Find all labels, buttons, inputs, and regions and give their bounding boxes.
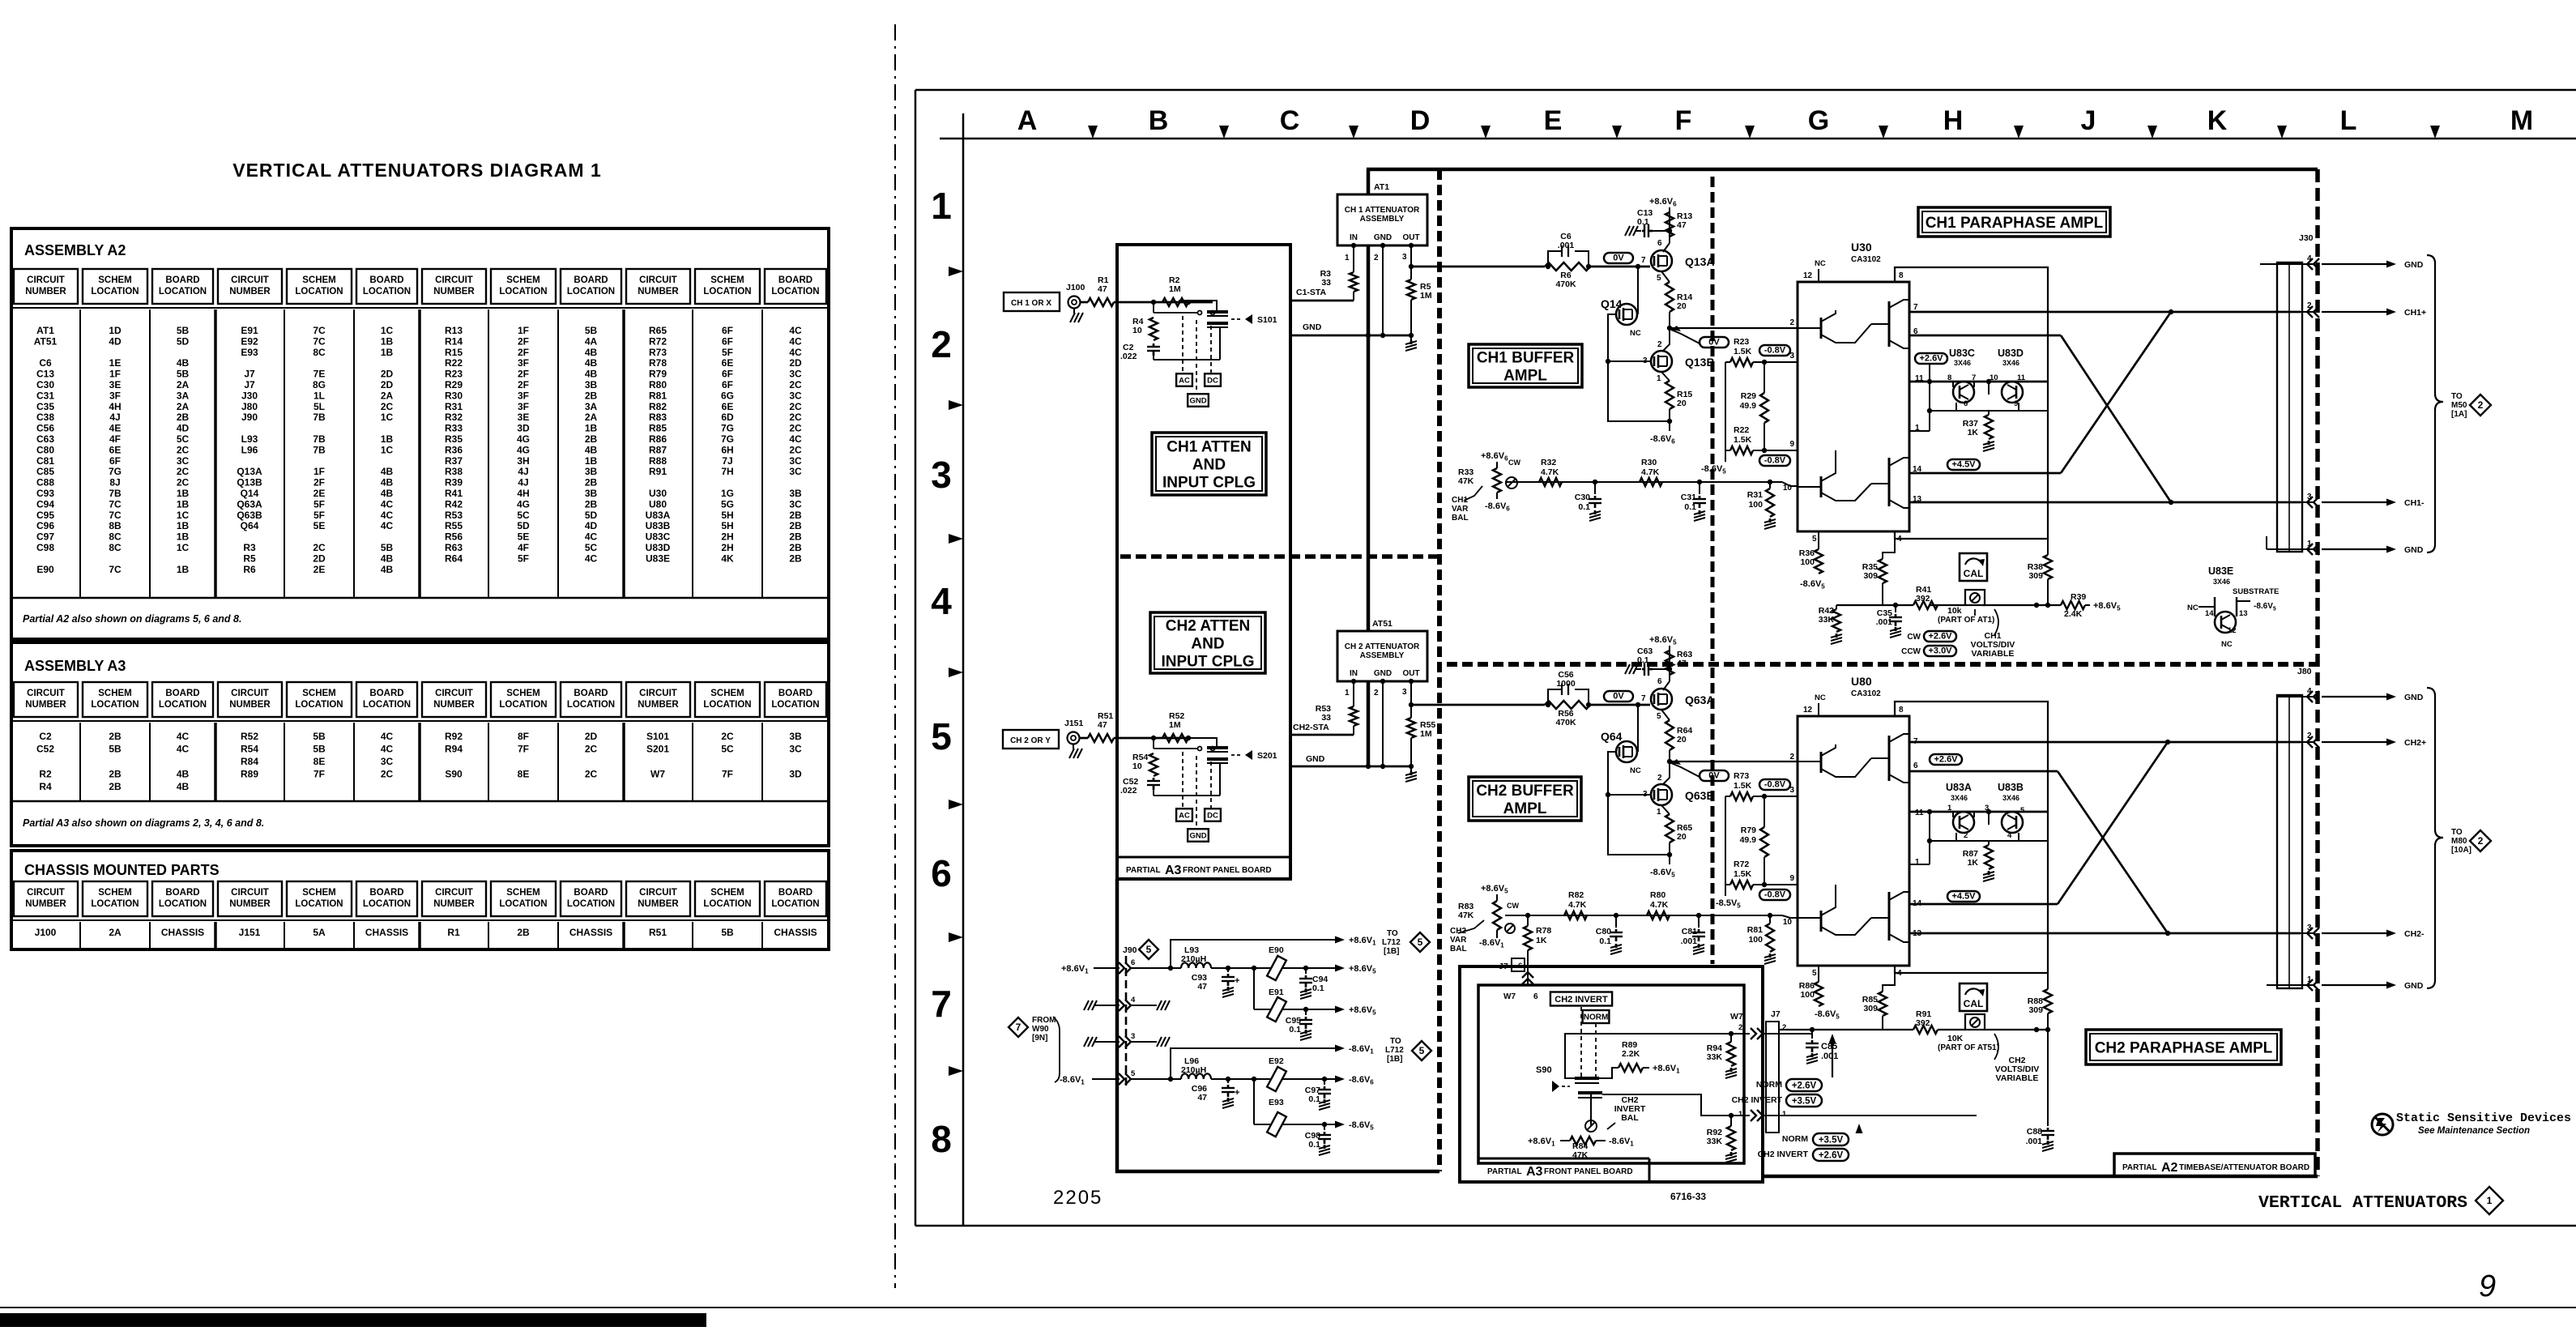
svg-text:GND: GND (1189, 396, 1206, 405)
ground C98 (1324, 1145, 1326, 1149)
ground R37 (1988, 441, 1990, 445)
svg-text:2B: 2B (585, 498, 598, 510)
svg-text:[10A]: [10A] (2451, 846, 2472, 855)
svg-text:4J: 4J (109, 412, 120, 423)
svg-text:2C: 2C (177, 444, 190, 455)
svg-text:8B: 8B (109, 520, 122, 531)
S90 wiring to W7 pin2 (1565, 1034, 1750, 1078)
svg-text:C30: C30 (36, 379, 54, 390)
svg-text:R85: R85 (649, 423, 667, 434)
svg-text:2C: 2C (789, 401, 802, 412)
resistor R5 (1409, 264, 1414, 269)
svg-text:4B: 4B (381, 564, 394, 575)
arrow up to wire (1832, 1040, 1833, 1077)
svg-text:2H: 2H (721, 531, 733, 543)
svg-text:R56: R56 (445, 531, 463, 543)
svg-text:(PART OF AT51): (PART OF AT51) (1938, 1043, 1999, 1052)
svg-text:12: 12 (1803, 271, 1813, 280)
U30 pin6 wire with crossover (1909, 335, 2061, 337)
svg-text:Partial A2 also shown on diagr: Partial A2 also shown on diagrams 5, 6 a… (23, 613, 241, 625)
GND arrow bottom (2267, 548, 2277, 550)
svg-text:+2.6V: +2.6V (1919, 354, 1943, 364)
svg-text:LOCATION: LOCATION (771, 287, 819, 296)
svg-text:7C: 7C (109, 498, 122, 510)
CH2 BUFFER AMPL label (1469, 777, 1581, 821)
+4.5V label (1947, 459, 1980, 470)
svg-text:3F: 3F (518, 401, 529, 412)
svg-text:3F: 3F (518, 390, 529, 401)
U30 pin14 wire with crossover (1909, 472, 2061, 475)
wire CH1 input (1142, 301, 1191, 304)
switch S101 (1186, 300, 1191, 305)
J30 brace TO M50 (2427, 255, 2443, 552)
svg-text:LOCATION: LOCATION (363, 899, 411, 909)
svg-text:4C: 4C (381, 731, 394, 742)
svg-text:8G: 8G (313, 379, 326, 390)
svg-text:4: 4 (931, 580, 952, 622)
svg-text:2B: 2B (517, 927, 530, 938)
svg-text:5F: 5F (313, 510, 325, 521)
svg-text:6: 6 (1533, 992, 1538, 1001)
svg-text:S101: S101 (1257, 315, 1277, 325)
svg-text:4B: 4B (381, 488, 394, 499)
U30 pin7 output wire (1909, 311, 2301, 314)
svg-text:3: 3 (1131, 1032, 1135, 1041)
A2 board outline top edge (1367, 168, 2318, 172)
svg-text:309: 309 (2028, 1005, 2043, 1015)
svg-text:2D: 2D (381, 369, 394, 380)
svg-text:3C: 3C (789, 744, 802, 755)
svg-text:7E: 7E (313, 369, 326, 380)
svg-text:1C: 1C (381, 325, 394, 336)
J80 brace TO M80 (2427, 688, 2443, 988)
svg-text:CH2: CH2 (1450, 927, 1466, 936)
svg-text:BAL: BAL (1450, 945, 1467, 953)
svg-text:IN: IN (1350, 669, 1358, 678)
svg-text:1C: 1C (177, 542, 190, 553)
svg-text:2C: 2C (177, 466, 190, 477)
wire Q63 output to U80 pin2 (1670, 761, 1798, 762)
svg-text:NUMBER: NUMBER (229, 287, 271, 296)
svg-text:3B: 3B (585, 466, 598, 477)
svg-text:1: 1 (2487, 1195, 2493, 1206)
svg-text:2B: 2B (585, 433, 598, 445)
svg-text:R79: R79 (1741, 825, 1756, 835)
svg-text:5: 5 (1419, 1045, 1425, 1056)
bottom left black bar (0, 1313, 706, 1327)
svg-text:Q64: Q64 (241, 520, 259, 531)
svg-text:BOARD: BOARD (369, 689, 403, 698)
svg-text:R54: R54 (241, 744, 258, 755)
+2.6V label U80 (1930, 754, 1962, 765)
svg-text:3C: 3C (789, 498, 802, 510)
svg-text:5: 5 (1812, 535, 1817, 544)
svg-text:2B: 2B (585, 390, 598, 401)
svg-text:47K: 47K (1458, 911, 1474, 920)
svg-text:R84: R84 (241, 756, 258, 767)
0V test label CH2 (1604, 691, 1633, 702)
svg-text:SCHEM: SCHEM (98, 275, 132, 285)
svg-text:1.5K: 1.5K (1734, 869, 1752, 879)
svg-text:2A: 2A (381, 390, 394, 401)
svg-text:GND: GND (2404, 260, 2424, 270)
svg-text:R78: R78 (649, 357, 667, 369)
U83AB emitter bus (1929, 812, 1930, 864)
CH1+ arrow (2322, 311, 2390, 313)
svg-text:6F: 6F (722, 335, 733, 347)
svg-text:+8.6V5: +8.6V5 (1349, 1005, 1376, 1017)
svg-text:47: 47 (1098, 720, 1107, 730)
svg-text:10K: 10K (1947, 1034, 1964, 1043)
svg-text:14: 14 (2205, 609, 2214, 618)
svg-text:4B: 4B (177, 781, 190, 792)
svg-text:NUMBER: NUMBER (433, 287, 475, 296)
svg-text:BOARD: BOARD (778, 689, 812, 698)
U80 lower pair transistors (1888, 892, 1891, 941)
svg-text:6H: 6H (721, 444, 733, 455)
svg-text:CH1-: CH1- (2404, 498, 2425, 508)
Q63A gate node wire (1636, 702, 1640, 707)
svg-text:SCHEM: SCHEM (710, 888, 744, 898)
svg-text:3A: 3A (585, 401, 598, 412)
svg-text:SCHEM: SCHEM (710, 275, 744, 285)
svg-text:GND: GND (1189, 831, 1206, 840)
svg-text:FRONT PANEL BOARD: FRONT PANEL BOARD (1544, 1167, 1633, 1176)
svg-text:.001: .001 (2026, 1137, 2043, 1146)
svg-text:ASSEMBLY: ASSEMBLY (1360, 215, 1405, 224)
svg-text:AC: AC (1179, 811, 1190, 820)
svg-text:CH 1 ATTENUATOR: CH 1 ATTENUATOR (1345, 206, 1420, 215)
svg-text:-8.6V1: -8.6V1 (1349, 1044, 1374, 1056)
svg-text:U83A: U83A (646, 510, 671, 521)
ground AT1 (1410, 335, 1412, 340)
svg-text:R36: R36 (445, 444, 463, 455)
svg-text:3: 3 (931, 454, 952, 496)
svg-text:U83C: U83C (1949, 348, 1975, 359)
svg-text:1: 1 (1345, 254, 1350, 262)
svg-text:LOCATION: LOCATION (159, 899, 207, 909)
svg-text:SCHEM: SCHEM (506, 689, 540, 698)
svg-text:NC: NC (2187, 604, 2199, 612)
svg-text:CH2+: CH2+ (2404, 738, 2426, 748)
svg-text:C81: C81 (36, 455, 54, 467)
svg-text:BAL: BAL (1621, 1113, 1639, 1123)
svg-text:0.1: 0.1 (1637, 217, 1649, 227)
svg-text:AMPL: AMPL (1503, 800, 1547, 817)
resistor R55 (1409, 702, 1414, 707)
svg-text:2D: 2D (381, 379, 394, 390)
ground C94 (1305, 988, 1307, 992)
svg-text:20: 20 (1677, 735, 1687, 744)
svg-text:R29: R29 (445, 379, 463, 390)
svg-text:4C: 4C (789, 347, 802, 358)
svg-text:7F: 7F (518, 744, 529, 755)
wire CH1 signal to buffer (1411, 266, 1545, 268)
svg-text:4C: 4C (381, 744, 394, 755)
svg-text:CIRCUIT: CIRCUIT (27, 689, 65, 698)
svg-text:LOCATION: LOCATION (771, 700, 819, 710)
svg-text:2C: 2C (177, 477, 190, 488)
wire CH1 bias rail (1505, 481, 1523, 483)
svg-text:8C: 8C (109, 531, 122, 543)
svg-text:1M: 1M (1169, 720, 1181, 730)
U30 pin13 output wire (1909, 501, 2301, 504)
svg-text:U80: U80 (649, 498, 667, 510)
A2 board dashed split line horizontal (1447, 662, 2318, 667)
svg-text:DC: DC (1207, 811, 1218, 820)
svg-text:5C: 5C (517, 510, 530, 521)
squiggle grounds pin3 (1084, 1037, 1089, 1047)
svg-text:3C: 3C (789, 466, 802, 477)
svg-text:5H: 5H (721, 510, 733, 521)
svg-text:6: 6 (1964, 399, 1968, 408)
svg-text:7B: 7B (109, 488, 122, 499)
wire CH2 input (1142, 737, 1191, 740)
svg-text:5C: 5C (585, 542, 598, 553)
svg-text:R42: R42 (445, 498, 463, 510)
CH2 INVERT switch label (1550, 992, 1612, 1006)
svg-text:TO: TO (1387, 929, 1398, 938)
svg-text:2: 2 (931, 323, 952, 365)
svg-text:1F: 1F (518, 325, 529, 336)
svg-text:2C: 2C (585, 744, 598, 755)
svg-text:+8.6V1: +8.6V1 (1528, 1137, 1555, 1148)
svg-text:4B: 4B (585, 357, 598, 369)
svg-text:Q64: Q64 (1601, 730, 1623, 743)
svg-text:6: 6 (1913, 761, 1918, 770)
svg-text:12: 12 (1803, 706, 1813, 715)
svg-text:47: 47 (1677, 659, 1687, 668)
svg-text:6E: 6E (109, 444, 122, 455)
svg-text:5G: 5G (721, 498, 734, 510)
svg-text:3C: 3C (789, 455, 802, 467)
svg-text:LOCATION: LOCATION (363, 700, 411, 710)
svg-text:3F: 3F (109, 390, 121, 401)
ground C30 (1594, 510, 1597, 514)
svg-text:Q13A: Q13A (237, 466, 262, 477)
svg-text:M80: M80 (2451, 837, 2467, 846)
Q64 gate wire (1608, 752, 1670, 855)
svg-text:C94: C94 (36, 498, 54, 510)
svg-text:BOARD: BOARD (574, 689, 608, 698)
svg-text:5B: 5B (177, 325, 190, 336)
+4.5V label U80 (1947, 891, 1980, 902)
capacitor C31 (1697, 480, 1702, 484)
svg-text:R22: R22 (1734, 425, 1749, 435)
chassis gnd C63 (1635, 668, 1641, 670)
CH2 PARAPHASE AMPL label (2086, 1030, 2281, 1064)
svg-text:SCHEM: SCHEM (710, 689, 744, 698)
svg-text:R73: R73 (1734, 771, 1749, 781)
svg-text:R72: R72 (649, 335, 667, 347)
svg-text:1B: 1B (585, 423, 598, 434)
svg-text:C52: C52 (36, 744, 54, 755)
wire W7 pin2 to paraphase (1779, 1033, 1812, 1035)
svg-text:1B: 1B (177, 488, 190, 499)
svg-text:A: A (1017, 105, 1038, 136)
svg-text:3B: 3B (789, 731, 802, 742)
svg-text:NUMBER: NUMBER (638, 287, 679, 296)
svg-text:100: 100 (1800, 557, 1815, 567)
svg-text:1K: 1K (1968, 858, 1979, 868)
svg-text:309: 309 (1863, 571, 1878, 581)
svg-text:0V: 0V (1613, 692, 1624, 702)
svg-text:4.7K: 4.7K (1641, 467, 1660, 477)
svg-text:CH2-: CH2- (2404, 929, 2425, 939)
svg-text:2C: 2C (789, 412, 802, 423)
svg-text:7: 7 (1641, 694, 1646, 703)
svg-text:4: 4 (1131, 996, 1136, 1005)
ground C96 (1227, 1098, 1230, 1102)
svg-text:6716-33: 6716-33 (1670, 1191, 1706, 1202)
svg-text:8C: 8C (313, 347, 326, 358)
U30 lower pair transistors (1888, 458, 1891, 506)
svg-text:6: 6 (931, 852, 952, 894)
svg-text:S201: S201 (1257, 751, 1277, 761)
svg-text:G: G (1808, 105, 1829, 136)
svg-text:NC: NC (1815, 693, 1826, 702)
svg-text:2D: 2D (789, 357, 802, 369)
svg-text:4: 4 (2007, 831, 2012, 840)
svg-text:VARIABLE: VARIABLE (1972, 649, 2015, 659)
svg-text:CHASSIS: CHASSIS (365, 927, 408, 938)
svg-text:4C: 4C (585, 552, 598, 564)
arrow up to NORM wire (1858, 1130, 1860, 1131)
svg-text:E92: E92 (1269, 1056, 1284, 1066)
svg-text:+2.6V: +2.6V (1819, 1151, 1844, 1161)
svg-text:W7: W7 (1503, 992, 1516, 1001)
svg-text:10: 10 (1783, 918, 1793, 927)
svg-text:J151: J151 (1064, 719, 1084, 728)
svg-text:C30: C30 (1575, 493, 1590, 502)
svg-text:C98: C98 (36, 542, 54, 553)
U80 upper pair transistors (1888, 736, 1891, 781)
svg-text:R64: R64 (445, 552, 463, 564)
bottom page line (0, 1307, 2576, 1308)
wire -8.6V rail (1131, 1078, 1181, 1080)
svg-text:1B: 1B (177, 564, 190, 575)
svg-text:5E: 5E (313, 520, 326, 531)
svg-text:FROM: FROM (1032, 1016, 1056, 1025)
svg-text:R81: R81 (649, 390, 667, 401)
svg-text:47K: 47K (1572, 1150, 1589, 1160)
svg-text:C38: C38 (36, 412, 54, 423)
svg-text:NUMBER: NUMBER (229, 899, 271, 909)
CH2 buffer/paraphase dashed separator (1711, 668, 1715, 964)
svg-text:SCHEM: SCHEM (506, 888, 540, 898)
svg-text:U83A: U83A (1946, 782, 1972, 793)
svg-text:4B: 4B (585, 347, 598, 358)
svg-text:NUMBER: NUMBER (25, 899, 66, 909)
svg-text:L712: L712 (1385, 1046, 1404, 1055)
svg-text:CIRCUIT: CIRCUIT (27, 888, 65, 898)
svg-text:W7: W7 (650, 769, 665, 780)
svg-text:2: 2 (1789, 318, 1794, 327)
svg-text:5F: 5F (518, 552, 529, 564)
A2 board outline left edge / AT1 gnd bus (1367, 169, 1371, 194)
svg-text:CH2-STA: CH2-STA (1293, 723, 1329, 732)
svg-text:5D: 5D (177, 335, 190, 347)
svg-text:SCHEM: SCHEM (302, 689, 336, 698)
svg-text:CCW: CCW (1901, 647, 1921, 656)
svg-text:W7: W7 (1730, 1012, 1743, 1022)
svg-text:AT1: AT1 (1374, 182, 1389, 192)
svg-text:GND: GND (1374, 669, 1392, 678)
svg-text:2C: 2C (381, 401, 394, 412)
svg-text:PARTIAL: PARTIAL (1126, 866, 1161, 875)
svg-text:2F: 2F (518, 369, 529, 380)
svg-text:1M: 1M (1420, 729, 1432, 739)
capacitor C80 (1614, 913, 1619, 918)
svg-text:5B: 5B (585, 325, 598, 336)
svg-text:3X46: 3X46 (1954, 359, 1971, 367)
svg-text:J80: J80 (241, 401, 258, 412)
svg-text:4J: 4J (518, 466, 528, 477)
svg-text:R29: R29 (1741, 391, 1756, 401)
svg-text:-8.6V1: -8.6V1 (1479, 938, 1504, 949)
svg-text:LOCATION: LOCATION (295, 700, 343, 710)
svg-text:-8.6V5: -8.6V5 (1701, 464, 1726, 476)
svg-text:A3: A3 (1165, 864, 1182, 877)
svg-text:LOCATION: LOCATION (91, 899, 139, 909)
svg-text:L93: L93 (241, 433, 258, 445)
svg-text:R30: R30 (445, 390, 463, 401)
svg-text:R73: R73 (649, 347, 667, 358)
svg-text:J90: J90 (241, 412, 258, 423)
svg-text:5: 5 (1657, 274, 1661, 283)
svg-text:4B: 4B (177, 769, 190, 780)
svg-text:5C: 5C (177, 433, 190, 445)
svg-text:2A: 2A (177, 401, 190, 412)
svg-text:R5: R5 (243, 552, 256, 564)
svg-text:20: 20 (1677, 399, 1687, 408)
svg-text:C: C (1280, 105, 1300, 136)
svg-text:R6: R6 (243, 564, 256, 575)
svg-text:BOARD: BOARD (778, 275, 812, 285)
GND arrow J80 top (2322, 696, 2390, 697)
ground C93 (1227, 987, 1230, 991)
svg-text:INPUT CPLG: INPUT CPLG (1161, 653, 1254, 670)
svg-text:R37: R37 (445, 455, 463, 467)
svg-text:R87: R87 (649, 444, 667, 455)
svg-text:2F: 2F (518, 347, 529, 358)
svg-text:5E: 5E (518, 531, 530, 543)
svg-text:11: 11 (1915, 808, 1924, 817)
svg-text:LOCATION: LOCATION (159, 700, 207, 710)
svg-text:7G: 7G (109, 466, 122, 477)
svg-text:5B: 5B (313, 731, 326, 742)
U83 emitter bus (1929, 382, 1930, 431)
svg-text:C85: C85 (36, 466, 54, 477)
svg-text:CH1 PARAPHASE AMPL: CH1 PARAPHASE AMPL (1926, 215, 2104, 232)
svg-text:INPUT CPLG: INPUT CPLG (1162, 474, 1256, 491)
svg-text:OUT: OUT (1402, 669, 1419, 678)
U80 pin6 wire with crossover (1909, 770, 2058, 773)
svg-text:33: 33 (1321, 278, 1331, 288)
GND label (1188, 394, 1209, 407)
table CHASSIS MOUNTED PARTS (11, 851, 829, 949)
svg-text:1.5K: 1.5K (1734, 781, 1752, 791)
svg-text:6E: 6E (722, 401, 734, 412)
wire CH2 bias rail (1505, 915, 1782, 916)
svg-text:+8.6V5: +8.6V5 (1649, 635, 1677, 646)
svg-text:2C: 2C (789, 379, 802, 390)
svg-text:7B: 7B (313, 412, 326, 423)
svg-text:-8.6V5: -8.6V5 (1349, 1120, 1374, 1132)
svg-text:4A: 4A (585, 335, 598, 347)
+2.6V label (1915, 353, 1947, 364)
svg-text:3D: 3D (789, 769, 802, 780)
